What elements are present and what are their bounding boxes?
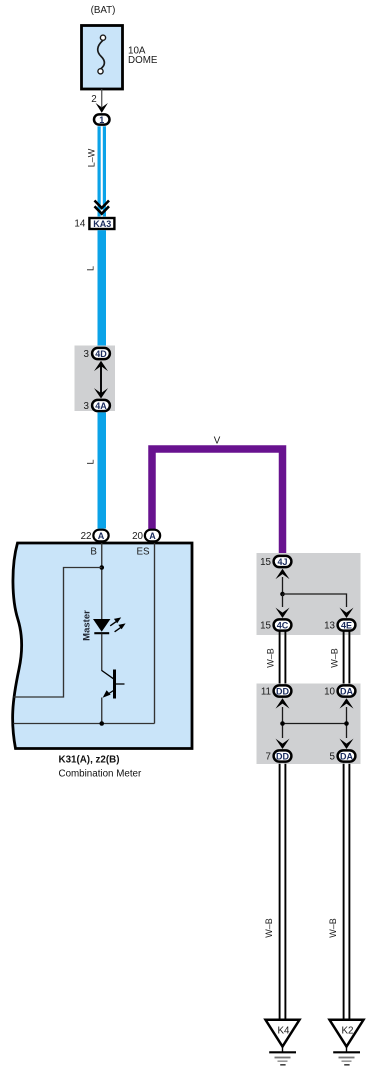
svg-text:22: 22 [81,531,92,542]
junction dot emitter [99,721,104,726]
connector 4E [338,619,356,630]
meter bottom wire [14,723,155,725]
wire W-B (4E to DA) [344,632,350,684]
ground K2 triangle [330,1020,364,1047]
connector block 4J/4C/4E [257,553,361,635]
arrows between 4D and 4A [94,361,108,399]
svg-text:L–W: L–W [87,148,97,167]
svg-text:4J: 4J [277,557,287,567]
arrow up into 4J [276,569,290,579]
arrow into splice 1 [96,103,108,113]
ground K4 symbol [269,1047,296,1065]
connector block 4D/4A [75,346,116,412]
junction dot B [99,565,104,570]
svg-text:K4: K4 [278,1026,291,1037]
svg-text:5: 5 [330,752,336,763]
svg-text:DA: DA [340,686,353,696]
ground K2 symbol [333,1047,360,1065]
meter wire from pin B [101,543,103,619]
page link double chevron [95,201,110,214]
svg-text:Master: Master [81,610,92,641]
wire 4J to junction [282,577,284,594]
junction dot DD [280,721,285,726]
arrow down into DD lower [276,739,290,749]
meter wire from pin ES [154,543,156,724]
connector DD upper [274,685,292,696]
LED emission arrows [110,621,121,632]
splice 1 [94,114,110,124]
svg-text:K31(A), z2(B): K31(A), z2(B) [59,755,120,766]
svg-text:W–B: W–B [264,918,274,938]
wire junction to 4C [282,594,284,607]
svg-text:DD: DD [276,751,289,761]
combination meter body [13,543,192,749]
arrow down into DA lower [340,739,354,749]
svg-text:15: 15 [260,621,271,632]
wire DA to junction [346,707,348,738]
svg-text:V: V [214,436,221,447]
svg-text:DA: DA [340,751,353,761]
svg-text:1: 1 [99,115,104,125]
connector 4C [274,619,292,630]
svg-text:K2: K2 [342,1026,354,1037]
connector DA lower [338,750,356,761]
wire junction to 4E branch [283,594,347,607]
fuse 10A DOME box [82,26,123,90]
wire L lower [98,412,107,528]
connector KA3 [89,218,114,229]
svg-text:11: 11 [261,687,271,698]
LED D1 [93,619,110,633]
svg-text:4C: 4C [277,620,289,630]
svg-text:KA3: KA3 [93,219,111,229]
svg-text:7: 7 [266,752,271,763]
wire L-W (blue/white) [98,126,107,216]
connector 4J [274,556,292,567]
arrow down into 4C [276,608,290,618]
junction dot 4J branch [280,592,285,597]
junction dot DA [344,721,349,726]
svg-text:W–B: W–B [330,648,340,668]
crossover wire DD-DA [283,723,347,725]
svg-text:(BAT): (BAT) [91,5,116,16]
svg-text:15: 15 [260,557,271,568]
wire L upper [98,230,107,347]
svg-text:13: 13 [324,621,335,632]
svg-text:L: L [86,266,96,271]
connector block DD/DA [257,684,361,765]
connector pin A (22) [93,530,108,542]
ground K4 triangle [266,1020,300,1047]
svg-text:W–B: W–B [266,648,276,668]
arrow up into DD [276,698,290,708]
svg-text:3: 3 [84,401,90,412]
svg-text:3: 3 [84,349,90,360]
wire W-B (DD to ground K4) [280,764,286,1021]
arrow up into DA [340,698,354,708]
wire DD to junction [282,707,284,738]
LED to transistor wire [101,634,103,671]
meter branch wire [14,568,102,698]
emitter wire [101,698,103,724]
svg-text:10: 10 [324,687,335,698]
svg-text:4D: 4D [95,349,107,359]
svg-text:L: L [86,459,96,464]
connector pin A (20) [145,530,160,542]
svg-text:A: A [98,531,105,541]
svg-text:B: B [90,547,97,558]
wire V (violet) [152,449,283,555]
wire W-B (4C to DD) [280,632,286,684]
svg-text:DOME: DOME [128,55,158,66]
svg-text:20: 20 [132,531,143,542]
svg-text:4E: 4E [341,620,352,630]
arrow down into 4E [340,608,354,618]
svg-text:2: 2 [91,94,96,105]
svg-text:ES: ES [136,547,150,558]
transistor Q1 [102,670,125,699]
svg-text:Combination Meter: Combination Meter [59,769,143,780]
wire W-B (DA to ground K2) [344,764,350,1021]
fuse element [98,35,106,74]
svg-text:DD: DD [276,686,289,696]
connector 4A [92,400,110,411]
connector DA upper [338,685,356,696]
svg-text:W–B: W–B [328,918,338,938]
connector 4D [92,348,110,359]
svg-text:14: 14 [74,219,85,230]
wire fuse to splice 1 [101,89,103,107]
svg-text:A: A [149,531,156,541]
connector DD lower [274,750,292,761]
svg-text:4A: 4A [95,401,107,411]
